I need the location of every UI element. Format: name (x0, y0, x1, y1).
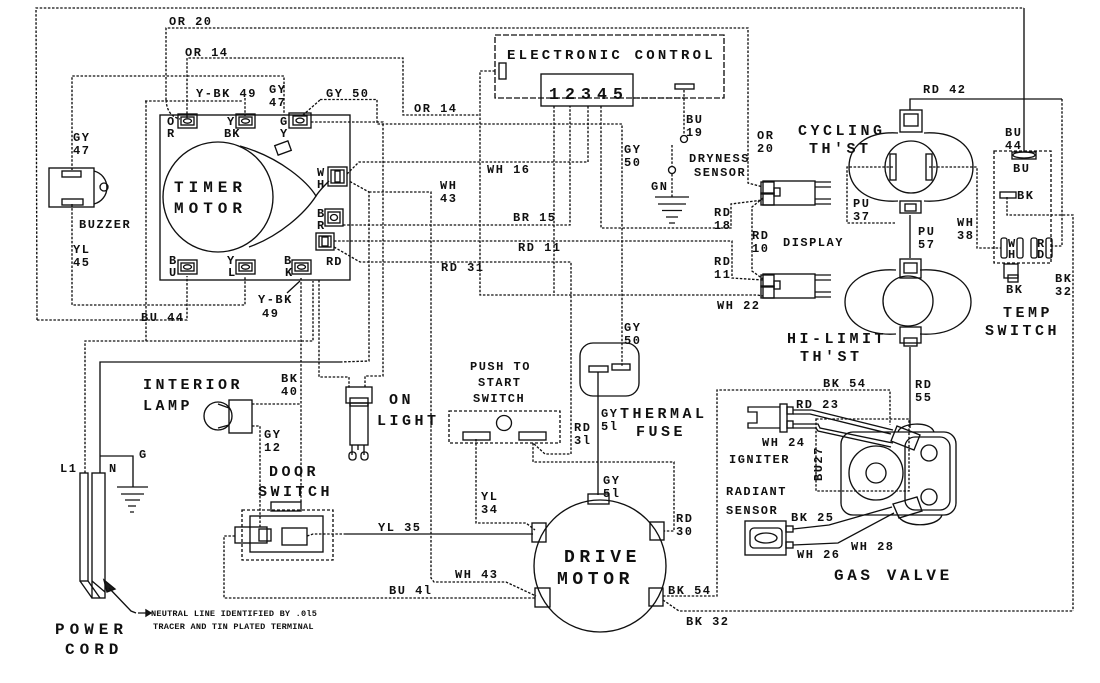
svg-text:45: 45 (73, 256, 90, 270)
svg-text:WH: WH (957, 216, 974, 230)
svg-text:RD: RD (714, 255, 731, 269)
svg-text:4: 4 (597, 85, 607, 104)
svg-text:GY: GY (624, 321, 641, 335)
svg-text:H: H (317, 178, 325, 192)
svg-text:RD 23: RD 23 (796, 398, 840, 412)
svg-text:SENSOR: SENSOR (694, 166, 746, 180)
svg-text:D: D (1037, 248, 1045, 262)
svg-text:K: K (285, 266, 293, 280)
svg-text:RD: RD (326, 255, 342, 269)
svg-text:SWITCH: SWITCH (473, 392, 525, 406)
svg-text:OR 20: OR 20 (169, 15, 213, 29)
svg-text:CORD: CORD (65, 641, 123, 659)
svg-text:BK: BK (1055, 272, 1072, 286)
svg-text:BU: BU (686, 113, 703, 127)
svg-text:BK: BK (281, 372, 298, 386)
svg-text:5l: 5l (603, 487, 620, 501)
svg-text:TIMER: TIMER (174, 179, 247, 197)
svg-text:57: 57 (918, 238, 935, 252)
svg-text:PU: PU (918, 225, 935, 239)
svg-text:WH 43: WH 43 (455, 568, 499, 582)
svg-text:38: 38 (957, 229, 974, 243)
svg-text:BU 4l: BU 4l (389, 584, 433, 598)
svg-text:43: 43 (440, 192, 457, 206)
svg-text:SENSOR: SENSOR (726, 504, 778, 518)
svg-text:LIGHT: LIGHT (377, 413, 440, 430)
svg-text:BK 54: BK 54 (668, 584, 712, 598)
svg-text:BU27: BU27 (812, 446, 826, 481)
svg-text:WH 24: WH 24 (762, 436, 806, 450)
svg-text:19: 19 (686, 126, 703, 140)
svg-text:50: 50 (624, 156, 641, 170)
svg-text:ON: ON (389, 392, 414, 409)
svg-text:RD 31: RD 31 (441, 261, 485, 275)
svg-text:50: 50 (624, 334, 641, 348)
svg-text:WH: WH (440, 179, 457, 193)
svg-text:PUSH TO: PUSH TO (470, 360, 531, 374)
svg-text:IGNITER: IGNITER (729, 453, 790, 467)
svg-text:RD: RD (752, 229, 769, 243)
svg-text:YL: YL (73, 243, 90, 257)
svg-text:10: 10 (752, 242, 769, 256)
svg-text:3l: 3l (574, 434, 591, 448)
svg-text:BR 15: BR 15 (513, 211, 557, 225)
svg-text:37: 37 (853, 210, 870, 224)
svg-text:BK: BK (1017, 189, 1034, 203)
svg-text:SWITCH: SWITCH (258, 484, 333, 501)
svg-text:THERMAL: THERMAL (620, 406, 708, 423)
svg-text:DOOR: DOOR (269, 464, 319, 481)
svg-text:WH 16: WH 16 (487, 163, 531, 177)
svg-text:G: G (139, 448, 148, 462)
svg-text:20: 20 (757, 142, 774, 156)
svg-text:RD 42: RD 42 (923, 83, 967, 97)
svg-text:MOTOR: MOTOR (557, 570, 634, 590)
svg-text:NEUTRAL LINE IDENTIFIED BY .0l: NEUTRAL LINE IDENTIFIED BY .0l5 (151, 609, 317, 619)
svg-text:YL: YL (481, 490, 498, 504)
svg-text:BU: BU (1013, 162, 1030, 176)
svg-text:GAS VALVE: GAS VALVE (834, 567, 953, 585)
svg-text:47: 47 (73, 144, 90, 158)
svg-text:GY 50: GY 50 (326, 87, 370, 101)
svg-text:55: 55 (915, 391, 932, 405)
svg-text:5: 5 (613, 85, 623, 104)
svg-text:MOTOR: MOTOR (174, 200, 247, 218)
svg-text:R: R (317, 219, 325, 233)
svg-text:GY: GY (603, 474, 620, 488)
svg-text:GN: GN (651, 180, 668, 194)
svg-text:5l: 5l (601, 420, 618, 434)
svg-text:GY: GY (73, 131, 90, 145)
svg-text:U: U (169, 266, 177, 280)
svg-text:N: N (109, 462, 118, 476)
svg-text:BUZZER: BUZZER (79, 218, 131, 232)
svg-text:3: 3 (581, 85, 591, 104)
svg-text:18: 18 (714, 219, 731, 233)
svg-text:CYCLING: CYCLING (798, 123, 886, 140)
svg-text:RADIANT: RADIANT (726, 485, 787, 499)
svg-text:GY: GY (601, 407, 618, 421)
svg-text:BK 25: BK 25 (791, 511, 835, 525)
svg-text:RD 11: RD 11 (518, 241, 562, 255)
svg-text:RD: RD (915, 378, 932, 392)
svg-text:OR 14: OR 14 (414, 102, 458, 116)
svg-text:LAMP: LAMP (143, 398, 193, 415)
svg-text:RD: RD (574, 421, 591, 435)
svg-text:WH 22: WH 22 (717, 299, 761, 313)
svg-text:DRYNESS: DRYNESS (689, 152, 750, 166)
svg-text:TH'ST: TH'ST (809, 141, 872, 158)
svg-text:TRACER AND TIN PLATED TERMINAL: TRACER AND TIN PLATED TERMINAL (153, 622, 314, 632)
svg-text:INTERIOR: INTERIOR (143, 377, 243, 394)
svg-text:RD: RD (676, 512, 693, 526)
svg-text:BK: BK (1006, 283, 1023, 297)
svg-text:1: 1 (549, 85, 559, 104)
svg-text:GY: GY (264, 428, 281, 442)
svg-text:11: 11 (714, 268, 731, 282)
svg-text:BK 32: BK 32 (686, 615, 730, 629)
svg-text:44: 44 (1005, 139, 1022, 153)
svg-text:12: 12 (264, 441, 281, 455)
svg-text:GY: GY (624, 143, 641, 157)
svg-text:Y-BK: Y-BK (258, 293, 293, 307)
svg-text:OR 14: OR 14 (185, 46, 229, 60)
svg-text:BK 54: BK 54 (823, 377, 867, 391)
svg-text:32: 32 (1055, 285, 1072, 299)
svg-text:TH'ST: TH'ST (800, 349, 863, 366)
svg-text:HI-LIMIT: HI-LIMIT (787, 331, 887, 348)
svg-text:47: 47 (269, 96, 286, 110)
svg-text:Y: Y (280, 127, 288, 141)
svg-text:ELECTRONIC CONTROL: ELECTRONIC CONTROL (507, 48, 716, 64)
svg-text:2: 2 (565, 85, 575, 104)
svg-text:49: 49 (262, 307, 279, 321)
svg-text:POWER: POWER (55, 621, 128, 639)
svg-text:DRIVE: DRIVE (564, 548, 641, 568)
svg-text:BU 44: BU 44 (141, 311, 185, 325)
svg-text:Y-BK 49: Y-BK 49 (196, 87, 257, 101)
svg-text:H: H (1008, 248, 1016, 262)
svg-text:WH 28: WH 28 (851, 540, 895, 554)
svg-text:PU: PU (853, 197, 870, 211)
svg-text:FUSE: FUSE (636, 424, 686, 441)
svg-text:GY: GY (269, 83, 286, 97)
svg-text:BU: BU (1005, 126, 1022, 140)
svg-text:TEMP: TEMP (1003, 305, 1053, 322)
svg-text:30: 30 (676, 525, 693, 539)
svg-text:BK: BK (224, 127, 240, 141)
svg-text:DISPLAY: DISPLAY (783, 236, 844, 250)
svg-text:SWITCH: SWITCH (985, 323, 1060, 340)
svg-text:40: 40 (281, 385, 298, 399)
svg-text:WH 26: WH 26 (797, 548, 841, 562)
svg-text:RD: RD (714, 206, 731, 220)
svg-text:START: START (478, 376, 522, 390)
svg-text:OR: OR (757, 129, 774, 143)
svg-text:34: 34 (481, 503, 498, 517)
svg-text:R: R (167, 127, 175, 141)
svg-text:L1: L1 (60, 462, 77, 476)
svg-text:YL 35: YL 35 (378, 521, 422, 535)
svg-text:L: L (228, 266, 236, 280)
